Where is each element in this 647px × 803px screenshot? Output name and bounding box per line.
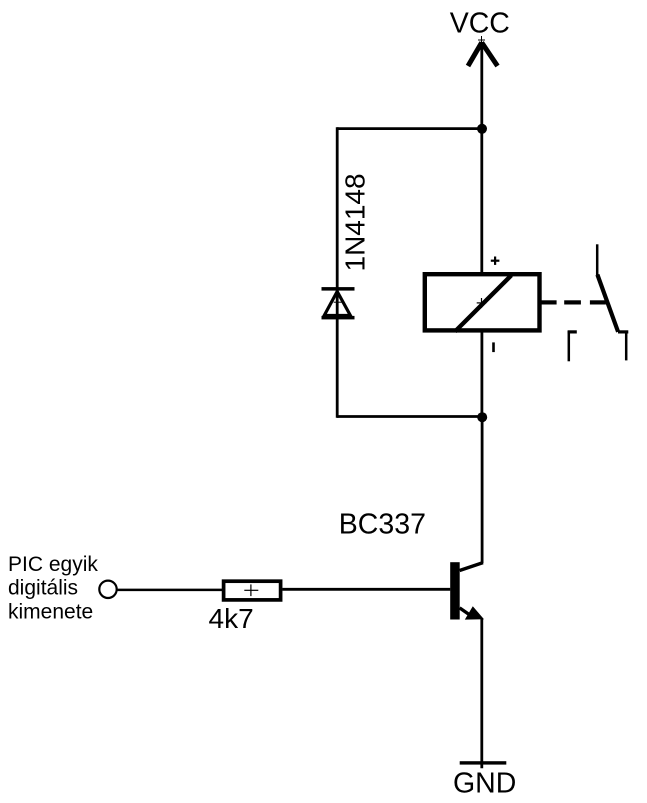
wire diode branch vertical xyxy=(336,127,339,418)
svg-text:kimenete: kimenete xyxy=(8,600,93,623)
wire junction B to collector xyxy=(481,417,484,563)
VCC arrow xyxy=(468,43,498,67)
svg-text:PIC egyik: PIC egyik xyxy=(8,553,98,576)
VCC pin marker xyxy=(478,36,485,43)
label PIC egyik digitalis kimenete xyxy=(8,553,98,623)
node junction A xyxy=(477,124,487,134)
switch S1 left contact terminal xyxy=(568,331,577,361)
svg-text:GND: GND xyxy=(453,768,516,800)
wire terminal to resistor xyxy=(117,589,222,592)
resistor R1 xyxy=(224,581,281,600)
svg-text:1N4148: 1N4148 xyxy=(340,173,371,271)
ground xyxy=(453,761,516,799)
wire VCC to junction A xyxy=(480,42,483,129)
svg-text:BC337: BC337 xyxy=(339,508,426,540)
dashed link relay to switch xyxy=(541,300,606,304)
terminal PIC output xyxy=(99,581,116,598)
relay K1 coil xyxy=(425,274,540,331)
switch S1 common terminal xyxy=(596,244,599,275)
label + (coil positive) xyxy=(491,257,500,265)
wire junction A to relay top xyxy=(480,129,483,274)
wire emitter to ground xyxy=(480,619,483,768)
wire bottom horizontal (diode branch to junction B) xyxy=(337,415,482,418)
transistor Q1 BC337 xyxy=(450,562,484,619)
svg-text:VCC: VCC xyxy=(450,8,510,40)
svg-text:digitális: digitális xyxy=(8,577,78,600)
switch S1 blade xyxy=(597,275,618,332)
wire resistor to base xyxy=(282,588,450,591)
diode D1 1N4148 xyxy=(322,287,355,319)
label - (coil negative) xyxy=(492,342,495,352)
wire top horizontal (junction A to diode branch) xyxy=(337,127,482,130)
svg-text:4k7: 4k7 xyxy=(209,603,254,634)
node junction B xyxy=(477,412,487,422)
switch S1 right contact terminal xyxy=(618,332,628,361)
wire relay bottom to junction B xyxy=(480,331,483,417)
